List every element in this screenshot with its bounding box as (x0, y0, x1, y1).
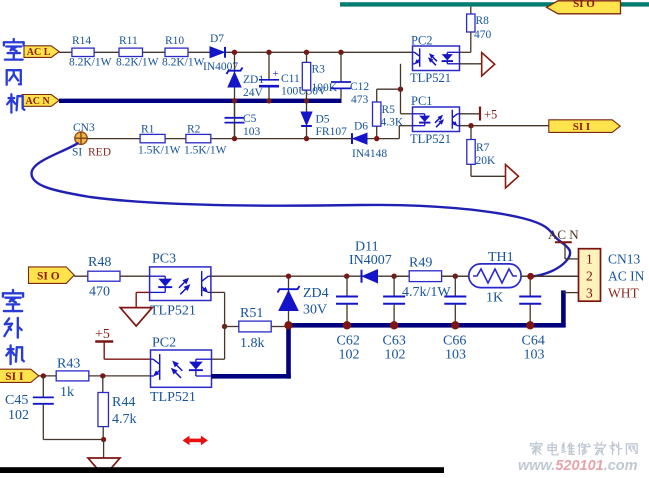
svg-text:AC IN: AC IN (608, 269, 645, 284)
svg-text:R1: R1 (141, 124, 155, 136)
svg-text:R49: R49 (409, 256, 432, 271)
svg-text:AC N: AC N (26, 96, 51, 107)
svg-text:R11: R11 (119, 35, 138, 47)
svg-text:WHT: WHT (608, 286, 639, 301)
svg-text:1.5K/1W: 1.5K/1W (184, 145, 227, 157)
svg-text:470: 470 (89, 285, 110, 300)
svg-text:PC3: PC3 (152, 252, 176, 267)
svg-text:SI I: SI I (573, 121, 590, 133)
svg-text:C5: C5 (243, 113, 257, 125)
svg-text:R44: R44 (112, 395, 135, 410)
svg-text:D5: D5 (316, 114, 330, 126)
svg-text:1K: 1K (486, 291, 503, 306)
svg-text:FR107: FR107 (316, 126, 348, 138)
svg-text:8.2K/1W: 8.2K/1W (69, 57, 112, 69)
svg-text:C11: C11 (281, 73, 300, 85)
svg-text:IN4007: IN4007 (349, 253, 392, 268)
svg-text:C63: C63 (383, 334, 406, 349)
svg-text:1k: 1k (60, 385, 74, 400)
svg-text:+: + (273, 68, 279, 80)
svg-text:SI O: SI O (573, 0, 595, 10)
svg-text:ZD4: ZD4 (303, 286, 329, 301)
svg-text:4.7k: 4.7k (112, 412, 137, 427)
svg-text:103: 103 (524, 348, 545, 363)
svg-text:PC1: PC1 (411, 94, 433, 108)
svg-text:C12: C12 (350, 81, 369, 93)
svg-text:R48: R48 (88, 255, 111, 270)
svg-text:R2: R2 (187, 124, 201, 136)
svg-text:SI: SI (72, 147, 82, 159)
svg-text:+5: +5 (484, 108, 497, 122)
svg-text:4.7k/1W: 4.7k/1W (402, 285, 451, 300)
svg-text:TLP521: TLP521 (150, 304, 196, 319)
svg-text:1: 1 (586, 252, 593, 267)
svg-text:TLP521: TLP521 (150, 390, 196, 405)
svg-text:30V: 30V (303, 303, 327, 318)
svg-text:8.2K/1W: 8.2K/1W (116, 57, 159, 69)
svg-text:103: 103 (243, 126, 261, 138)
svg-text:R8: R8 (476, 15, 490, 27)
svg-text:470: 470 (474, 29, 492, 41)
svg-text:24V: 24V (243, 87, 264, 99)
svg-text:R14: R14 (72, 35, 91, 47)
svg-text:102: 102 (385, 348, 406, 363)
svg-text:R5: R5 (382, 104, 396, 116)
svg-text:4.3K: 4.3K (381, 117, 404, 129)
svg-text:SI I: SI I (5, 371, 24, 383)
svg-text:C45: C45 (5, 393, 28, 408)
svg-text:R51: R51 (240, 306, 263, 321)
svg-text:D7: D7 (210, 33, 224, 45)
svg-text:RED: RED (88, 147, 111, 159)
svg-text:R10: R10 (165, 35, 184, 47)
svg-text:2: 2 (586, 269, 593, 284)
svg-text:C66: C66 (443, 334, 466, 349)
svg-text:3: 3 (586, 286, 593, 301)
svg-text:AC L: AC L (27, 47, 51, 58)
svg-text:C62: C62 (337, 334, 360, 349)
svg-text:AC N: AC N (548, 227, 579, 242)
svg-text:+5: +5 (95, 327, 110, 342)
svg-text:www.520101.com: www.520101.com (518, 458, 638, 473)
svg-text:8.2K/1W: 8.2K/1W (162, 57, 205, 69)
svg-text:SI O: SI O (37, 270, 60, 282)
svg-text:R7: R7 (476, 142, 490, 154)
svg-text:D6: D6 (354, 121, 368, 133)
svg-text:1.8k: 1.8k (240, 336, 265, 351)
svg-text:103: 103 (445, 348, 466, 363)
svg-text:20K: 20K (476, 155, 497, 167)
svg-text:R43: R43 (57, 357, 80, 372)
svg-text:102: 102 (8, 408, 29, 423)
svg-text:102: 102 (339, 348, 360, 363)
svg-text:TLP521: TLP521 (410, 71, 451, 85)
svg-text:PC2: PC2 (152, 336, 176, 351)
svg-text:CN13: CN13 (608, 252, 641, 267)
svg-text:TH1: TH1 (488, 250, 514, 265)
svg-text:C64: C64 (522, 334, 545, 349)
svg-text:IN4148: IN4148 (352, 148, 387, 160)
svg-text:R3: R3 (312, 64, 326, 76)
svg-text:473: 473 (351, 94, 369, 106)
svg-text:TLP521: TLP521 (410, 132, 451, 146)
svg-text:1.5K/1W: 1.5K/1W (138, 145, 181, 157)
